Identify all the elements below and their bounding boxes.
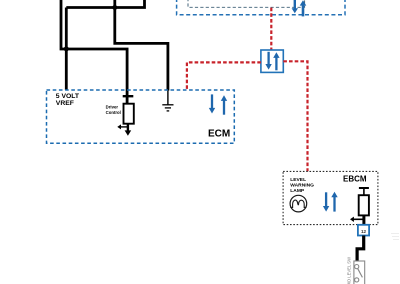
- svg-text:ECM: ECM: [208, 129, 230, 140]
- inline connector C1 (two-way): [261, 50, 283, 72]
- inner module sub-box (top right, cut off): [188, 0, 305, 7]
- arrow down (ECM): [209, 94, 215, 113]
- junction at top horizontal run: [112, 5, 117, 10]
- svg-text:12: 12: [361, 229, 367, 234]
- ECM box: [47, 90, 235, 143]
- arrow up (module box terminal): [300, 0, 307, 16]
- wire (black) 5 volt vref feed: [65, 8, 68, 90]
- wire (black thick) from pin 12 to fluid level switch: [357, 236, 364, 262]
- EBCM box: [283, 171, 378, 224]
- wire (black) top horizontal run: [66, 0, 144, 8]
- resistor R1 (inside EBCM): [350, 188, 369, 225]
- svg-text:WARNING: WARNING: [290, 182, 314, 188]
- connector pin 12: [358, 225, 369, 236]
- svg-text:Driver: Driver: [106, 105, 119, 110]
- svg-text:FLUID LEVEL SW: FLUID LEVEL SW: [347, 257, 352, 284]
- label driver control: [106, 105, 121, 116]
- wire (black) from top to driver control: [61, 0, 127, 104]
- wire (black, thin) ground lead inside ECM: [167, 90, 169, 105]
- wire (red) from connector right side to EBCM: [283, 61, 307, 171]
- arrow up (EBCM): [331, 192, 337, 212]
- junction at vref crossing: [64, 46, 69, 51]
- module box (top right, cut off): [177, 0, 345, 15]
- arrow up (ECM): [221, 95, 227, 114]
- lamp L1: [290, 195, 307, 212]
- svg-text:VREF: VREF: [56, 100, 74, 107]
- ground G1 (inside ECM): [162, 105, 173, 111]
- wire (black) from top to ECM ground: [115, 0, 168, 91]
- svg-text:EBCM: EBCM: [343, 175, 367, 184]
- label level warning lamp: [290, 177, 314, 194]
- driver control Q1: [117, 96, 134, 136]
- label 5 VOLT VREF: [56, 93, 80, 107]
- wire (red) from inner module box down to inline connector: [270, 8, 272, 50]
- faint print artifact: [391, 234, 399, 240]
- svg-text:Control: Control: [106, 110, 121, 115]
- svg-text:LAMP: LAMP: [290, 188, 305, 194]
- arrow down (EBCM): [323, 192, 329, 211]
- wire (red) from connector left side to ECM: [187, 62, 261, 89]
- fluid level switch S1 (cut off at bottom): [354, 261, 365, 284]
- arrow down (module box terminal): [292, 0, 298, 13]
- svg-text:LEVEL: LEVEL: [290, 177, 306, 183]
